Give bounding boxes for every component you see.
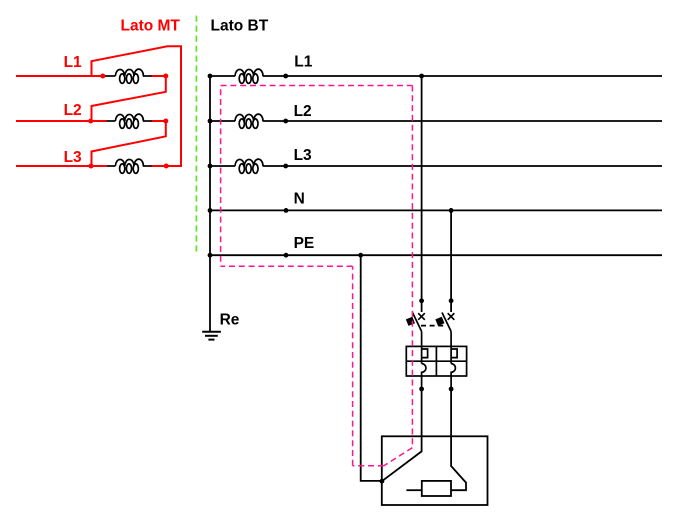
svg-text:L1: L1 [64, 54, 82, 71]
wire PE tap to device [361, 255, 382, 481]
breaker Q2 [435, 313, 454, 347]
contact detail 1 bottom arc [422, 364, 426, 389]
line N [210, 209, 662, 211]
node PE [284, 253, 289, 258]
delta wire L1left to L3right [92, 46, 182, 166]
node L3 BT [283, 164, 288, 169]
winding L1 MT [115, 69, 143, 83]
wire L2 MT right lead [151, 120, 166, 122]
node breaker Q1 input [419, 298, 424, 303]
contact detail 2 top [451, 346, 457, 363]
svg-text:PE: PE [294, 235, 315, 252]
winding L3 MT [115, 159, 143, 173]
junction bus/N [208, 208, 213, 213]
contact detail 2 bottom arc [451, 364, 455, 389]
lead L2b MT [143, 120, 152, 122]
winding L1 BT [235, 69, 263, 83]
mechanical link dashed [421, 325, 446, 327]
node dot L3 MT left [89, 164, 94, 169]
delta wire L1right to L2left [92, 76, 166, 121]
node dot L1 MT left [100, 74, 105, 79]
wire breaker2 into device [451, 389, 466, 490]
wire L3 BT left segment [210, 165, 235, 167]
wire L1 BT main [263, 75, 662, 77]
svg-text:N: N [294, 190, 305, 207]
load device box [382, 436, 488, 505]
svg-text:L3: L3 [64, 149, 82, 166]
svg-text:Re: Re [220, 312, 240, 329]
plug-in base box [406, 346, 466, 389]
resistor in device [422, 481, 451, 496]
ground Re [202, 332, 221, 340]
resistor left lead [406, 489, 421, 491]
winding L2 MT [115, 114, 143, 128]
svg-text:Lato BT: Lato BT [211, 18, 269, 35]
wire L3 BT main [263, 165, 662, 167]
node dot L3 MT right [164, 164, 169, 169]
winding L3 BT [235, 159, 263, 173]
wire L1 tap to breaker Q1 [421, 76, 423, 312]
node under fuse base 1 [419, 387, 424, 392]
node breaker Q2 input [449, 298, 454, 303]
junction N/tap [449, 208, 454, 213]
svg-text:Lato MT: Lato MT [121, 18, 181, 35]
junction bus/L1 [208, 74, 213, 79]
wire N tap to breaker Q2 [450, 210, 452, 312]
junction L1/tap [419, 74, 424, 79]
separator line MT/BT (green dashed) [195, 16, 197, 252]
svg-text:L3: L3 [294, 147, 312, 164]
lead L2 MT [107, 120, 116, 122]
contact detail 1 top [422, 346, 428, 363]
junction bus/L3 [208, 164, 213, 169]
node N [284, 208, 289, 213]
wire L3 MT [16, 165, 107, 167]
wire L1 MT right lead [151, 75, 166, 77]
junction PE/tap [358, 253, 363, 258]
wire L2 BT main [263, 120, 662, 122]
breaker Q1 [406, 313, 425, 347]
lead L3 MT [107, 165, 116, 167]
lead L3b MT [143, 165, 152, 167]
svg-text:L2: L2 [64, 102, 82, 119]
junction bus/PE [208, 253, 213, 258]
wire L1 BT left segment [210, 75, 235, 77]
wire L3 MT right lead [151, 165, 166, 167]
wire breaker1 into device [382, 389, 422, 481]
BT bus vertical [209, 76, 211, 332]
node device terminal [380, 479, 385, 484]
svg-text:L1: L1 [294, 54, 312, 71]
delta wire L2right to L3left [92, 121, 166, 166]
lead L1b MT [143, 75, 152, 77]
svg-text:L2: L2 [294, 103, 312, 120]
node under fuse base 2 [449, 387, 454, 392]
lead L1 MT [103, 75, 115, 77]
node dot L2 MT right [163, 119, 168, 124]
wire L2 BT left segment [210, 120, 235, 122]
node L2 BT [283, 119, 288, 124]
node L1 BT [283, 74, 288, 79]
line PE [210, 254, 662, 256]
measurement loop (magenta dashed) [221, 86, 413, 466]
junction bus/L2 [208, 119, 213, 124]
winding L2 BT [235, 114, 263, 128]
wire L2 MT [16, 120, 107, 122]
wire L1 MT [16, 75, 105, 77]
node dot L2 MT left [88, 119, 93, 124]
node dot L1 MT right [163, 74, 168, 79]
